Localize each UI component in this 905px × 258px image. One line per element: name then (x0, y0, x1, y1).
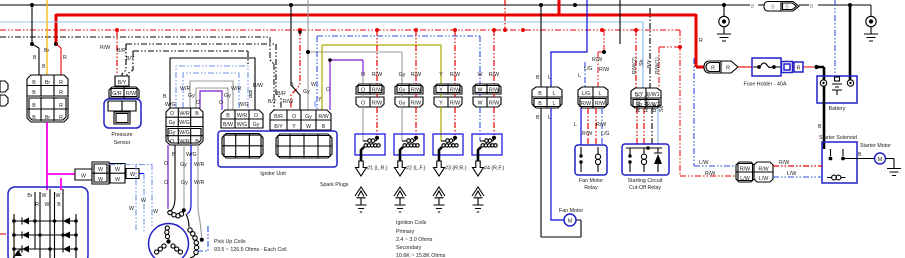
svg-text:R/W(1): R/W(1) (636, 95, 642, 112)
svg-text:B: B (226, 113, 230, 119)
svg-text:G/R: G/R (112, 91, 122, 97)
svg-text:Starting Circuit: Starting Circuit (628, 178, 663, 184)
svg-text:L: L (578, 73, 581, 79)
ignition coil 1 assembly (355, 84, 388, 212)
svg-text:R/W: R/W (372, 88, 382, 94)
svg-text:M: M (568, 219, 572, 225)
svg-text:B: B (195, 111, 199, 117)
label pick up coils (214, 239, 287, 253)
wire R stub at left edge bottom (0, 233, 6, 235)
svg-text:B: B (771, 4, 775, 10)
svg-text:Primary: Primary (396, 229, 415, 235)
svg-text:R/W: R/W (411, 101, 421, 107)
svg-text:Br: Br (45, 80, 51, 86)
svg-text:Relay: Relay (584, 185, 598, 191)
svg-text:B: B (32, 80, 36, 86)
svg-text:W: W (98, 177, 103, 183)
wire B/Y black dash-dot line 2 (127, 51, 248, 76)
svg-text:B: B (536, 75, 540, 81)
svg-text:B: B (249, 90, 253, 96)
connector L/G L (578, 87, 608, 108)
wire R to fuse (738, 66, 752, 68)
svg-text:W/R: W/R (180, 86, 190, 92)
wire Sb light blue bus (0, 22, 643, 88)
svg-text:B: B (32, 90, 36, 96)
wire B drop to ignitor (290, 5, 302, 110)
svg-text:R/W: R/W (372, 101, 382, 107)
wire W blue dash-dot line to coil 4 (317, 36, 480, 110)
wire R/W red dash-dot bus (0, 0, 736, 176)
wire Gy loop (188, 88, 231, 110)
svg-text:L/G: L/G (582, 91, 591, 97)
svg-text:R/W: R/W (283, 99, 293, 105)
wire drops to cutoff connector (620, 0, 661, 88)
svg-text:B: B (163, 94, 167, 100)
alternator cover boundary dash (196, 226, 208, 251)
svg-text:93.5 ~ 126.5 Ohms - Each Coil: 93.5 ~ 126.5 Ohms - Each Coil (214, 247, 287, 253)
svg-text:W: W (141, 198, 146, 204)
wires W dash to stator (109, 165, 158, 233)
svg-text:B/W: B/W (223, 122, 233, 128)
wire B/R black dash-dot line (122, 44, 281, 110)
wire O purple line to coil 1 (328, 58, 363, 110)
bullet connector R R (704, 61, 738, 73)
svg-text:B: B (538, 91, 542, 97)
svg-text:W/G: W/G (237, 122, 248, 128)
svg-text:Br: Br (45, 115, 51, 121)
svg-text:W: W (311, 82, 316, 88)
svg-text:B/Y: B/Y (126, 56, 135, 62)
wire R red drop to connector 1 (56, 44, 67, 75)
svg-text:B: B (785, 4, 789, 10)
svg-text:Gy: Gy (169, 130, 176, 136)
fuse holder 40A (744, 58, 793, 88)
wire W/G loop (165, 66, 249, 110)
fan motor (559, 208, 583, 226)
svg-text:O: O (164, 180, 168, 186)
svg-text:B: B (322, 124, 326, 130)
svg-text:Gy: Gy (399, 101, 406, 107)
svg-text:Ignitor Unit: Ignitor Unit (260, 171, 286, 177)
svg-text:B/Y: B/Y (647, 59, 653, 68)
wires to fan relay connector (578, 57, 609, 87)
bullet connector block R/W L/W (736, 162, 773, 182)
svg-text:R/W: R/W (599, 67, 609, 73)
wires from C3 down to pickup coils (164, 145, 204, 238)
svg-text:R/W: R/W (372, 72, 382, 78)
svg-text:L: L (548, 115, 551, 121)
svg-text:R/W: R/W (489, 101, 499, 107)
ground terminal left (717, 5, 731, 41)
svg-text:B/Y: B/Y (652, 103, 658, 112)
svg-text:L: L (574, 122, 577, 128)
svg-text:B: B (33, 55, 37, 61)
svg-text:O: O (219, 100, 223, 106)
svg-text:B: B (751, 4, 755, 10)
svg-text:Pick Up Coils: Pick Up Coils (214, 239, 246, 245)
svg-text:L/W: L/W (759, 176, 768, 182)
svg-text:R/W: R/W (758, 167, 768, 173)
svg-text:R/W: R/W (489, 88, 499, 94)
STARTER SOLENOID (819, 135, 875, 183)
svg-text:R/W: R/W (582, 131, 592, 137)
svg-text:W/R: W/R (194, 162, 204, 168)
svg-text:B/R: B/R (277, 91, 286, 97)
svg-text:B: B (810, 4, 814, 10)
svg-text:Secondary: Secondary (396, 245, 422, 251)
svg-text:R/W: R/W (779, 160, 789, 166)
svg-text:L: L (599, 91, 602, 97)
svg-text:L: L (553, 101, 556, 107)
svg-text:B/R: B/R (117, 48, 126, 54)
svg-text:W: W (81, 174, 86, 180)
connector cutoff relay (631, 88, 661, 108)
svg-text:10.6K ~ 15.8K Ohms: 10.6K ~ 15.8K Ohms (396, 253, 446, 258)
wire B to fan motor return (536, 108, 581, 237)
svg-text:B: B (57, 202, 61, 208)
ignitor unit box (218, 131, 337, 177)
svg-text:O: O (254, 113, 258, 119)
wire Gy gray line to coil 2 (306, 0, 402, 110)
wires from connector down to fan relay (574, 108, 610, 145)
svg-text:Gy: Gy (169, 120, 176, 126)
wire R fuse to battery cell (793, 66, 815, 68)
regulator SCR symbol (13, 249, 22, 258)
rectifier internal wires (12, 189, 78, 258)
connector C4 ignitor left 3x2 (221, 110, 263, 128)
svg-text:Starter Motor: Starter Motor (860, 143, 891, 149)
svg-text:R/W: R/W (705, 171, 715, 177)
wire B main ground bus (0, 3, 871, 16)
svg-text:W: W (306, 124, 311, 130)
svg-text:R/W(1): R/W(1) (655, 57, 661, 74)
svg-text:B: B (42, 64, 46, 70)
svg-text:Y: Y (439, 88, 443, 94)
pickup coil 2 (186, 214, 204, 242)
wire B thick to battery (814, 65, 824, 80)
wire R/W dash to solenoid bullets (694, 58, 736, 177)
svg-text:R/W: R/W (411, 72, 421, 78)
svg-text:R: R (726, 66, 730, 72)
svg-text:#1 (L.R.): #1 (L.R.) (367, 166, 388, 172)
svg-text:O: O (361, 88, 365, 94)
svg-text:B: B (536, 115, 540, 121)
wire R/W drops to coil connectors (361, 30, 499, 84)
svg-text:L/W: L/W (787, 171, 796, 177)
connector pressure sensor (109, 76, 139, 98)
connector B L (532, 87, 562, 108)
svg-text:W: W (42, 193, 47, 199)
svg-text:O: O (292, 114, 296, 120)
svg-text:R: R (711, 66, 715, 72)
svg-text:W/G: W/G (186, 152, 197, 158)
svg-text:R/W: R/W (318, 114, 328, 120)
svg-text:W/R: W/R (179, 111, 189, 117)
ground terminal right (864, 16, 878, 41)
svg-text:B/R: B/R (274, 114, 283, 120)
ALTERNATOR rectifier box (8, 187, 88, 258)
svg-text:W: W (478, 101, 483, 107)
wire B drop to connector 1 (30, 5, 46, 75)
svg-text:R: R (35, 202, 39, 208)
wire R/W drop to ignitor (283, 30, 300, 110)
svg-text:B: B (818, 124, 822, 130)
connector C5 ignitor right 4x2 (270, 110, 331, 130)
svg-text:W/R: W/R (237, 113, 247, 119)
svg-text:Gy: Gy (399, 72, 406, 78)
svg-text:R: R (699, 38, 703, 44)
svg-text:B: B (858, 152, 862, 158)
bullet connector B B (751, 2, 814, 12)
connector stub at left edge (0, 81, 8, 106)
svg-text:Br: Br (44, 48, 50, 54)
svg-text:Spark Plugs: Spark Plugs (320, 182, 349, 188)
fan motor relay (575, 145, 607, 191)
svg-text:R/W(2): R/W(2) (644, 95, 650, 112)
svg-text:Gy: Gy (399, 88, 406, 94)
svg-text:W/R: W/R (231, 86, 241, 92)
wire Br yellow drop to connector 1 (44, 0, 50, 75)
svg-text:R: R (797, 66, 801, 72)
starting circuit cut-off relay (622, 144, 669, 191)
pickup coil 3 (190, 241, 199, 258)
svg-text:O: O (361, 101, 365, 107)
svg-text:W: W (478, 88, 483, 94)
svg-text:Fan Motor: Fan Motor (579, 178, 603, 184)
svg-text:Y: Y (439, 72, 443, 78)
svg-text:Gy: Gy (180, 162, 187, 168)
svg-text:B/Y: B/Y (118, 80, 127, 86)
wire R main battery bus (thick red) (54, 0, 704, 67)
svg-text:2.4 ~ 3.0 Ohms: 2.4 ~ 3.0 Ohms (396, 237, 433, 243)
svg-text:R/W: R/W (450, 101, 460, 107)
svg-text:R/W: R/W (489, 72, 499, 78)
svg-text:R/W: R/W (740, 167, 750, 173)
svg-text:B: B (195, 139, 199, 145)
svg-text:O: O (170, 139, 174, 145)
svg-text:W/R: W/R (179, 139, 189, 145)
wire W/R loop blue (183, 73, 239, 110)
svg-text:W: W (130, 172, 135, 178)
svg-text:Gy: Gy (253, 122, 260, 128)
svg-text:W: W (98, 167, 103, 173)
svg-text:R: R (59, 80, 63, 86)
svg-text:R/W: R/W (592, 57, 602, 63)
svg-text:L/W: L/W (699, 160, 708, 166)
svg-text:Ignition Coils: Ignition Coils (396, 220, 427, 226)
wire Br magenta stubs into alternator (60, 178, 62, 190)
connector C1 main 3x4 (27, 75, 68, 122)
wire L to fan motor (548, 108, 564, 220)
BATTERY (817, 76, 857, 112)
svg-text:R/W: R/W (100, 45, 110, 51)
wire B/Y black dash-dot bus (0, 37, 274, 110)
wire B loop (163, 58, 255, 110)
svg-text:Br: Br (27, 193, 33, 199)
svg-text:Gy: Gy (305, 114, 312, 120)
svg-text:B/Y: B/Y (274, 124, 283, 130)
svg-text:Fan Motor: Fan Motor (559, 208, 583, 214)
svg-text:R/W: R/W (450, 88, 460, 94)
svg-text:R/W: R/W (581, 101, 591, 107)
svg-text:Sb: Sb (639, 59, 645, 66)
wire Y olive line to coil 3 (322, 45, 441, 110)
STARTER MOTOR (860, 143, 901, 176)
svg-text:R/W(2): R/W(2) (632, 57, 638, 74)
svg-text:R: R (63, 55, 67, 61)
svg-text:W: W (129, 206, 134, 212)
svg-text:Y: Y (318, 97, 322, 103)
connector C3 pickup coils 3x4 (166, 108, 203, 145)
svg-text:W/G: W/G (179, 130, 190, 136)
wire B battery to solenoid (818, 86, 824, 149)
svg-text:Fuse Holder - 40A: Fuse Holder - 40A (744, 82, 787, 88)
pressure sensor body (104, 99, 141, 146)
svg-text:R/W: R/W (126, 91, 136, 97)
label ignition coils specs (396, 220, 446, 258)
svg-text:W/G: W/G (179, 120, 190, 126)
pickup coil 1 (168, 208, 186, 218)
svg-text:R/W: R/W (595, 101, 605, 107)
svg-text:Gy: Gy (303, 89, 310, 95)
svg-text:#4 (R.F.): #4 (R.F.) (484, 166, 505, 172)
STATOR coils (149, 224, 189, 258)
svg-text:O: O (196, 100, 200, 106)
svg-text:R: R (59, 90, 63, 96)
svg-text:W: W (115, 167, 120, 173)
svg-text:L/W: L/W (740, 176, 749, 182)
svg-text:#2 (L.F.): #2 (L.F.) (406, 166, 426, 172)
svg-text:O: O (170, 111, 174, 117)
wire L blue from bus area (548, 0, 587, 87)
connector R single (794, 62, 803, 72)
svg-text:R: R (59, 115, 63, 121)
svg-text:Sb: Sb (659, 105, 665, 112)
svg-text:Y: Y (439, 101, 443, 107)
wire labels at ignitor right (249, 82, 330, 110)
svg-text:B/W: B/W (253, 83, 263, 89)
svg-text:R/W: R/W (596, 122, 606, 128)
wires from cutoff connector to relay (636, 95, 665, 144)
svg-text:R: R (59, 103, 63, 109)
wire Br magenta from connector 1 to W joint (47, 122, 75, 190)
svg-text:L/G: L/G (584, 66, 593, 72)
svg-text:Gy: Gy (224, 93, 231, 99)
svg-text:W/R: W/R (194, 180, 204, 186)
ignition coil 3 assembly (433, 84, 467, 212)
W CONNECTOR CLUSTER (75, 162, 139, 184)
svg-text:B/Y: B/Y (268, 99, 277, 105)
boundary dash line at battery (834, 0, 836, 74)
svg-text:R/W: R/W (411, 88, 421, 94)
svg-text:O: O (326, 87, 330, 93)
svg-text:B: B (32, 103, 36, 109)
wire R/W drop to pressure sensor (100, 30, 135, 74)
svg-text:B: B (32, 115, 36, 121)
svg-text:W/G: W/G (238, 102, 249, 108)
svg-text:L: L (548, 75, 551, 81)
svg-text:Starter Solenoid: Starter Solenoid (819, 135, 857, 141)
svg-text:L/G: L/G (601, 131, 610, 137)
svg-text:M: M (878, 157, 882, 163)
svg-text:O: O (361, 72, 365, 78)
svg-text:Sensor: Sensor (114, 140, 131, 146)
svg-text:B: B (538, 101, 542, 107)
svg-text:Gy: Gy (181, 180, 188, 186)
svg-text:W: W (115, 177, 120, 183)
svg-text:W/G: W/G (165, 102, 176, 108)
svg-text:R/W: R/W (450, 72, 460, 78)
wire W/R loop gray (180, 81, 241, 110)
ignition coil 4 assembly (472, 84, 505, 212)
svg-text:Pressure: Pressure (111, 132, 132, 138)
svg-text:Y: Y (292, 124, 296, 130)
wire B drop to fan connector (536, 5, 541, 87)
svg-text:W: W (56, 193, 61, 199)
svg-text:Cut-Off Relay: Cut-Off Relay (629, 185, 661, 191)
svg-text:B: B (172, 152, 176, 158)
wire R/W and L/W to solenoid (773, 160, 822, 177)
wire B thick from bus to battery right (849, 5, 852, 80)
svg-text:O: O (164, 161, 168, 167)
svg-text:W: W (478, 72, 483, 78)
svg-text:B: B (290, 82, 294, 88)
wire O loop purple (196, 91, 223, 110)
svg-text:L: L (553, 91, 556, 97)
svg-text:W: W (45, 202, 50, 208)
svg-text:W: W (153, 209, 158, 215)
svg-text:Battery: Battery (829, 106, 846, 112)
ignition coil 2 assembly (394, 84, 426, 212)
svg-text:Gy: Gy (188, 93, 195, 99)
svg-text:#3 (R.R.): #3 (R.R.) (445, 166, 467, 172)
rectifier diodes (22, 218, 70, 253)
